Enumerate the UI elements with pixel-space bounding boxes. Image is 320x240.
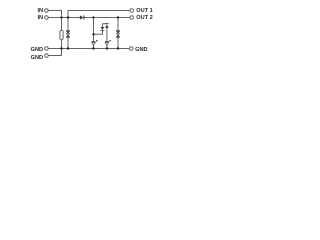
wire rail fuse top <box>61 18 63 31</box>
wire GND lower riser <box>48 49 61 56</box>
suppressor diode 1 (bidirectional TVS) <box>66 30 70 37</box>
anti-parallel diode pair left (arrow down) <box>101 27 105 31</box>
wire rail suppressor1 top <box>67 18 69 31</box>
svg-text:GND: GND <box>31 47 43 53</box>
fuse (gas discharge tube obround) <box>60 30 63 40</box>
terminal OUT 2 <box>130 16 134 20</box>
wire rail suppressor2 bottom <box>117 37 119 48</box>
junction bus suppressor1 <box>67 47 69 49</box>
terminal IN 1 <box>45 9 49 13</box>
junction node B on line <box>92 16 94 18</box>
wire rail node B gdt bottom <box>93 46 95 49</box>
junction bus fuse <box>60 47 62 49</box>
svg-text:IN: IN <box>38 15 44 21</box>
wire rail fuse bottom <box>61 40 63 49</box>
svg-text:OUT 1: OUT 1 <box>136 8 152 14</box>
wire GND bus <box>48 48 129 50</box>
spark gap 1 <box>92 40 98 46</box>
terminal GND left lower <box>45 54 49 58</box>
junction bus gdt2 <box>106 47 108 49</box>
wire rail suppressor1 bottom <box>67 37 69 48</box>
junction bus gdt1 <box>92 47 94 49</box>
terminal OUT 1 <box>130 9 134 13</box>
suppressor diode 2 (bidirectional TVS) <box>116 30 120 37</box>
wire rail node B down <box>93 18 95 42</box>
wire branch to diode pair <box>94 31 103 35</box>
svg-text:GND: GND <box>135 47 147 53</box>
terminal IN 2 <box>45 16 49 20</box>
wire diode pair right lead to gdt <box>106 28 108 42</box>
wire gdt2 bottom <box>106 46 108 49</box>
wire diode cathode to OUT2 <box>84 17 130 19</box>
wire IN1 to corner <box>48 11 61 18</box>
svg-text:IN: IN <box>38 8 44 14</box>
wire diode pair top link <box>102 23 107 25</box>
junction bus suppressor2 <box>117 47 119 49</box>
spark gap 2 <box>105 40 111 46</box>
series diode D <box>80 15 85 19</box>
wire rail suppressor2 top <box>117 18 119 31</box>
anti-parallel diode pair right (arrow up) <box>105 23 109 28</box>
junction node diode pair branch <box>92 33 94 35</box>
wire IN2 line to diode anode <box>48 17 80 19</box>
svg-text:OUT 2: OUT 2 <box>136 15 152 21</box>
wire diode pair left lead <box>101 24 103 27</box>
junction node IN1/IN2 <box>60 16 62 18</box>
terminal GND left upper <box>45 47 49 51</box>
junction node OUT1 branch <box>67 16 69 18</box>
svg-text:GND: GND <box>31 55 43 61</box>
junction node suppressor2 on line <box>117 16 119 18</box>
wire branch up to OUT1 line <box>68 11 130 18</box>
terminal GND right <box>129 47 133 51</box>
